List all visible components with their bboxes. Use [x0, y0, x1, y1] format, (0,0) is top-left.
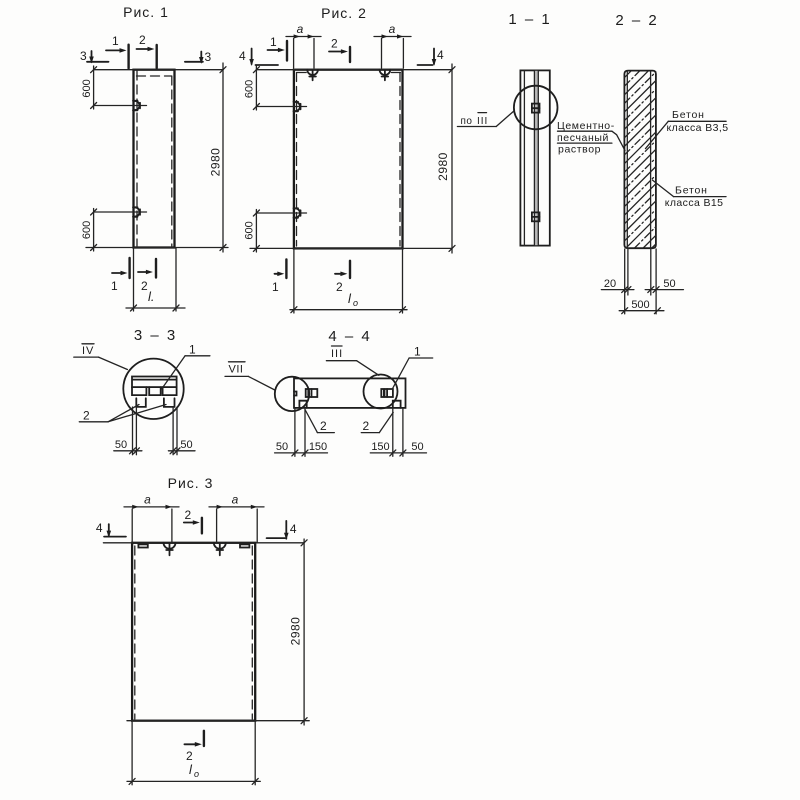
svg-text:1: 1	[414, 345, 421, 359]
lifting loop upper Fig.2	[294, 102, 301, 112]
embedded plate lower 1-1	[532, 212, 540, 221]
svg-text:2: 2	[185, 508, 192, 522]
svg-text:a: a	[144, 493, 151, 507]
notch right 4-4	[393, 401, 401, 408]
bottom extension verticals 2-2	[625, 249, 656, 314]
embedded angle right 3-3	[164, 398, 175, 407]
panel edge bar 3-3	[132, 377, 177, 388]
svg-text:Цементно-: Цементно-	[557, 120, 615, 132]
section mark 1 bottom Fig.1	[112, 258, 130, 278]
svg-text:2: 2	[320, 419, 327, 433]
top notch left Fig.3	[164, 543, 176, 556]
section mark 3 left Fig.1	[87, 51, 109, 62]
svg-text:класса В3,5: класса В3,5	[667, 122, 729, 134]
bottom edge extension line Fig.1	[86, 247, 228, 249]
dimension a right Fig.2	[374, 37, 411, 69]
svg-text:o: o	[353, 298, 358, 308]
svg-text:песчаный: песчаный	[557, 132, 609, 144]
dimension lo Fig.2	[290, 307, 407, 313]
joint profile 3-3	[132, 387, 177, 395]
embedded plate right 4-4	[381, 389, 393, 397]
bottom edge extension Fig.3	[127, 720, 309, 722]
top edge extension Fig.2	[256, 69, 452, 71]
svg-text:600: 600	[81, 79, 93, 97]
left end step 4-4	[294, 392, 297, 396]
section mark 1 top Fig.2	[268, 41, 288, 61]
facing layer line 2-2	[650, 71, 652, 248]
section mark 2 bottom Fig.1	[138, 259, 156, 278]
svg-text:600: 600	[244, 80, 256, 98]
dimension 50	[645, 287, 683, 293]
extension legs 4-4	[295, 408, 403, 456]
embedded plate upper 1-1	[532, 104, 540, 113]
svg-text:2 – 2: 2 – 2	[615, 12, 658, 29]
section mark 1 top Fig.1	[106, 45, 129, 69]
svg-text:50: 50	[663, 278, 675, 290]
dimension 600 upper Fig.2	[253, 66, 259, 110]
svg-text:2980: 2980	[436, 152, 450, 181]
mortar layer line 2-2	[626, 71, 628, 248]
dimension 500	[619, 308, 664, 314]
svg-text:l.: l.	[148, 289, 155, 304]
section mark 3 right Fig.1	[185, 52, 203, 63]
section mark 2 bottom Fig.3	[184, 731, 204, 746]
mortar joint (grey) 1-1	[534, 71, 538, 245]
dimension 50 left 3-3	[114, 448, 142, 454]
panel bar 4-4	[294, 378, 406, 408]
dimension 150 right 4-4	[370, 450, 426, 456]
svg-text:4 – 4: 4 – 4	[328, 328, 371, 345]
svg-text:a: a	[389, 22, 396, 36]
svg-text:500: 500	[631, 299, 649, 311]
svg-text:150: 150	[309, 441, 327, 453]
svg-text:2980: 2980	[289, 617, 303, 646]
bottom edge extension Fig.2	[250, 247, 452, 249]
section mark 4 left Fig.2	[252, 49, 278, 66]
svg-text:Бетон: Бетон	[672, 109, 705, 121]
svg-text:4: 4	[290, 522, 297, 536]
dimension 600 upper Fig.1	[91, 66, 97, 109]
lifting loop lower (left edge) Fig.1	[133, 207, 140, 217]
svg-text:2: 2	[139, 33, 146, 47]
detail circle 3-3	[123, 359, 183, 419]
dashed inner contour Fig.3	[135, 546, 253, 719]
svg-text:VII: VII	[229, 364, 244, 376]
top notch right Fig.2	[380, 70, 391, 81]
dimension 50 right 3-3	[168, 448, 195, 454]
svg-text:50: 50	[180, 439, 192, 451]
panel outline Fig.2	[294, 70, 403, 249]
svg-text:класса В15: класса В15	[665, 197, 724, 209]
bottom extension verticals Fig.1	[134, 248, 177, 311]
top plate left Fig.3	[138, 544, 147, 547]
panel outline Fig.3	[132, 543, 255, 721]
extension legs 3-3	[133, 407, 178, 455]
svg-text:2: 2	[141, 279, 148, 293]
section mark 2 bottom Fig.2	[335, 261, 350, 278]
dimension 2980 Fig.2	[449, 64, 455, 253]
svg-text:50: 50	[411, 441, 423, 453]
svg-text:2: 2	[363, 419, 370, 433]
svg-text:2980: 2980	[209, 148, 223, 177]
bottom extension verticals Fig.3	[132, 721, 255, 785]
svg-text:3: 3	[205, 50, 212, 64]
bottom extension verticals Fig.2	[294, 249, 403, 313]
svg-text:1: 1	[189, 343, 196, 357]
top notch right Fig.3	[214, 543, 226, 556]
dimension a right Fig.3	[209, 507, 264, 542]
svg-text:1: 1	[111, 279, 118, 293]
svg-text:раствор: раствор	[558, 144, 601, 156]
svg-text:3 – 3: 3 – 3	[134, 327, 177, 344]
svg-text:III: III	[331, 348, 343, 360]
loop axis line upper Fig.1	[94, 105, 147, 107]
embedded plate left 4-4	[306, 389, 318, 397]
dimension 600 lower Fig.1	[91, 209, 97, 252]
svg-text:1: 1	[112, 34, 119, 48]
section mark 2 top Fig.2	[329, 47, 350, 62]
detail circle 1-1	[514, 86, 558, 130]
section mark 4 right Fig.3	[267, 521, 287, 539]
section mark 2 top Fig.1	[137, 45, 157, 68]
svg-text:Рис. 3: Рис. 3	[168, 475, 214, 491]
svg-text:по: по	[461, 116, 473, 127]
svg-text:4: 4	[239, 49, 246, 63]
top notch left Fig.2	[307, 70, 318, 81]
svg-text:20: 20	[604, 278, 616, 290]
section mark 4 left Fig.3	[104, 524, 126, 537]
svg-text:2: 2	[331, 37, 338, 51]
embedded angle left 3-3	[136, 398, 146, 407]
dimension 2980 Fig.3	[301, 539, 307, 725]
concrete hatching 2-2	[625, 71, 656, 248]
svg-text:3: 3	[80, 49, 87, 63]
svg-text:Рис. 2: Рис. 2	[321, 5, 367, 21]
svg-text:150: 150	[371, 441, 389, 453]
section mark 1 bottom Fig.2	[275, 259, 287, 278]
svg-text:2: 2	[336, 280, 343, 294]
detail circle right 4-4	[364, 375, 398, 409]
svg-text:4: 4	[96, 521, 103, 535]
svg-text:600: 600	[81, 221, 93, 239]
dimension a left Fig.3	[124, 507, 179, 542]
dimension lo Fig.3	[127, 778, 260, 784]
top edge extension Fig.3	[103, 542, 304, 544]
svg-text:1 – 1: 1 – 1	[508, 11, 551, 28]
svg-text:2: 2	[83, 409, 90, 423]
section mark 2 top Fig.3	[184, 518, 202, 534]
svg-text:Бетон: Бетон	[675, 185, 708, 197]
svg-text:l: l	[348, 291, 352, 306]
svg-text:Рис. 1: Рис. 1	[123, 4, 169, 20]
top edge extension line Fig.1	[94, 69, 223, 71]
panel outline Fig.1	[134, 70, 175, 248]
lifting loop upper (left edge) Fig.1	[133, 101, 140, 111]
svg-text:50: 50	[115, 439, 127, 451]
dimension l Fig.1	[126, 305, 185, 311]
svg-text:a: a	[232, 493, 239, 507]
lifting loop lower Fig.2	[294, 208, 301, 218]
dimension a left Fig.2	[286, 37, 321, 69]
wall strip outline 2-2	[624, 71, 656, 249]
dashed inner contour Fig.2	[297, 73, 402, 247]
svg-text:50: 50	[276, 441, 288, 453]
panel strip outline 1-1	[520, 70, 549, 245]
section mark 4 right Fig.2	[418, 49, 435, 66]
svg-text:1: 1	[270, 35, 277, 49]
inner left face line 1-1	[523, 71, 525, 246]
dashed inner contour Fig.1	[137, 71, 172, 246]
svg-text:IV: IV	[82, 345, 94, 357]
svg-text:4: 4	[437, 48, 444, 62]
dimension 50 left 4-4	[275, 450, 328, 456]
dimension 2980 Fig.1	[220, 63, 226, 252]
svg-text:2: 2	[186, 749, 193, 763]
svg-text:o: o	[194, 769, 199, 779]
svg-text:III: III	[477, 116, 488, 127]
dimension 20	[601, 287, 634, 293]
svg-text:a: a	[297, 22, 304, 36]
loop axis line lower Fig.1	[94, 211, 147, 213]
notch left 4-4	[299, 401, 306, 408]
detail circle left 4-4	[275, 377, 309, 411]
dimension 600 lower Fig.2	[253, 210, 259, 253]
svg-text:l: l	[189, 762, 193, 777]
svg-text:1: 1	[272, 280, 279, 294]
svg-text:600: 600	[244, 221, 256, 239]
top plate right Fig.3	[240, 544, 249, 547]
